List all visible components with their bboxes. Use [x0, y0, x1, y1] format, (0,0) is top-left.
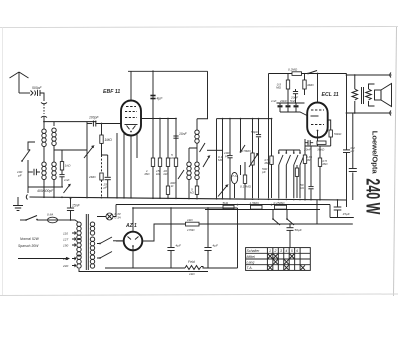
svg-text:150: 150: [63, 244, 68, 248]
svg-text:1: 1: [269, 249, 271, 253]
svg-text:MΩ: MΩ: [307, 158, 313, 162]
svg-text:100pF: 100pF: [89, 116, 100, 120]
svg-text:MΩ: MΩ: [276, 86, 282, 90]
svg-text:1kΩ: 1kΩ: [65, 164, 71, 168]
svg-text:30kΩ: 30kΩ: [317, 148, 325, 152]
svg-text:EBF 11: EBF 11: [103, 89, 120, 95]
svg-text:15µF: 15µF: [343, 212, 351, 216]
svg-text:Normal 52W: Normal 52W: [20, 237, 40, 241]
svg-text:220: 220: [62, 257, 68, 261]
svg-text:110: 110: [63, 232, 68, 236]
svg-text:1MΩ: 1MΩ: [105, 138, 113, 142]
svg-text:5: 5: [291, 249, 293, 253]
svg-text:2MΩ: 2MΩ: [88, 175, 96, 179]
svg-text:1.5MΩ: 1.5MΩ: [250, 201, 260, 205]
svg-text:0.2MΩ: 0.2MΩ: [288, 68, 298, 72]
svg-text:4µF: 4µF: [157, 97, 164, 101]
svg-text:400/600pF: 400/600pF: [37, 189, 54, 193]
svg-text:170Ω: 170Ω: [187, 228, 195, 232]
svg-text:AZ 1: AZ 1: [125, 223, 137, 229]
svg-text:Feld: Feld: [188, 260, 195, 264]
svg-text:0.25MΩ: 0.25MΩ: [274, 201, 286, 205]
svg-text:ECL 11: ECL 11: [322, 92, 339, 98]
svg-text:5kΩ: 5kΩ: [223, 201, 229, 205]
svg-text:Lang: Lang: [247, 261, 255, 265]
svg-text:Schalter: Schalter: [247, 249, 261, 253]
svg-text:1kΩ: 1kΩ: [187, 218, 193, 222]
svg-text:4: 4: [285, 249, 287, 253]
svg-text:Sparsch.30W: Sparsch.30W: [18, 244, 39, 248]
svg-text:127: 127: [63, 238, 68, 242]
svg-text:240: 240: [62, 264, 68, 268]
svg-text:Loewe/Opta: Loewe/Opta: [370, 131, 379, 175]
svg-text:1kΩ: 1kΩ: [189, 272, 195, 276]
svg-text:20nF: 20nF: [279, 99, 288, 103]
svg-text:20nF: 20nF: [303, 148, 312, 152]
svg-text:4MΩ: 4MΩ: [307, 83, 314, 87]
svg-text:kΩ: kΩ: [300, 186, 305, 190]
svg-text:240 W: 240 W: [361, 178, 382, 214]
svg-text:50µF: 50µF: [295, 228, 303, 232]
svg-text:10nF: 10nF: [179, 132, 188, 136]
svg-text:T.A.: T.A.: [232, 174, 238, 178]
svg-text:15nF: 15nF: [72, 204, 81, 208]
svg-text:500pF: 500pF: [32, 86, 43, 90]
svg-text:0.15MΩ: 0.15MΩ: [240, 185, 252, 189]
svg-text:T.A.: T.A.: [247, 266, 253, 270]
svg-text:0.5MΩ: 0.5MΩ: [242, 149, 252, 153]
svg-text:2: 2: [274, 249, 277, 253]
svg-text:MΩ: MΩ: [323, 162, 329, 166]
svg-text:3: 3: [280, 249, 282, 253]
svg-text:50kΩ: 50kΩ: [334, 132, 342, 136]
svg-text:6: 6: [296, 249, 298, 253]
svg-text:Mittel: Mittel: [247, 255, 256, 259]
svg-text:0.8A: 0.8A: [47, 213, 53, 217]
svg-text:50pF: 50pF: [251, 130, 259, 134]
svg-text:0.3A: 0.3A: [115, 216, 121, 220]
